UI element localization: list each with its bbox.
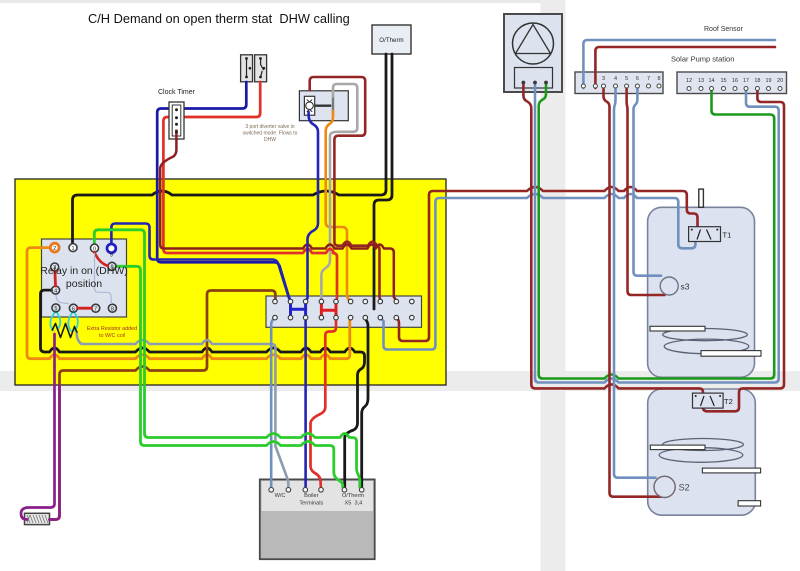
wire slate-blue T1 to strip col8 bottom — [381, 194, 696, 350]
wire black bus relay-4 to boiler terminal — [41, 290, 365, 487]
upper coil ellipse 1 — [663, 329, 748, 341]
wire dark-red solar-3 to sensor S2 — [604, 88, 664, 497]
pump terminal box — [515, 68, 553, 89]
wire slate-gray resistor to boiler W/C-2 — [77, 332, 289, 487]
wire red switch-2 to strip col5 top — [163, 82, 337, 301]
boiler terminal area — [262, 481, 374, 511]
svg-text:7: 7 — [94, 306, 97, 312]
wire red strip col5 to boiler terminal — [311, 318, 337, 487]
cylinder upper section — [648, 207, 755, 377]
thermostat T2 box — [693, 393, 724, 408]
svg-text:4: 4 — [54, 288, 57, 294]
valve actuator arm — [315, 104, 332, 106]
svg-text:C/H Demand on open therm stat: C/H Demand on open therm stat DHW callin… — [88, 11, 350, 26]
wire dark-red solar-5 to sensor s3 — [627, 88, 665, 295]
pump circle — [513, 23, 554, 64]
wire dark-red roof sensor — [595, 47, 775, 88]
svg-text:W/C: W/C — [275, 493, 286, 499]
svg-text:16: 16 — [732, 78, 738, 84]
relay pin 3 — [51, 263, 59, 271]
relay pin 9 (blue) — [107, 244, 116, 259]
boiler box — [260, 479, 375, 559]
wire green pump to solar station 14 — [539, 84, 775, 379]
svg-text:9: 9 — [110, 253, 113, 259]
svg-text:switched mode Flows to: switched mode Flows to — [243, 131, 298, 137]
diverter valve box — [299, 91, 348, 121]
svg-text:12: 12 — [686, 78, 692, 84]
upper coil pipe right — [701, 351, 761, 357]
strip terminals top row — [273, 299, 414, 304]
svg-text:4: 4 — [614, 76, 617, 82]
wire dark-red diverter valve to strip col8 top — [310, 77, 381, 301]
svg-text:7: 7 — [647, 76, 650, 82]
clock timer contact dots — [175, 108, 178, 133]
wire navy strip col3 to boiler terminal — [304, 318, 307, 487]
relay pin 10 — [91, 244, 99, 252]
wire cyan resistor lead — [50, 311, 56, 331]
relay pin 6 — [69, 304, 77, 312]
svg-text:19: 19 — [765, 78, 771, 84]
svg-text:DHW: DHW — [264, 137, 276, 143]
svg-text:O/Therm: O/Therm — [379, 37, 403, 44]
solar strip A terminals — [581, 84, 661, 88]
solar terminal strip A — [575, 72, 663, 94]
wire orange diverter valve to strip col6 top — [326, 111, 351, 301]
svg-text:20: 20 — [777, 78, 783, 84]
wire dark-red pump to solar station 18 via T2 — [523, 84, 784, 411]
clock timer inner — [172, 105, 181, 136]
valve gate bar — [332, 96, 334, 114]
pump terminal dots — [522, 81, 548, 85]
relay internal red link 3-4 — [54, 271, 57, 286]
solar pump station strip B — [677, 72, 787, 94]
wire purple to link plug — [21, 334, 55, 520]
wire dark-red clock timer stub — [175, 130, 178, 141]
relay internal coil wire 4-6 — [56, 295, 69, 304]
wire black O/Therm-2 to terminal strip — [374, 54, 392, 309]
svg-text:3 port diverter valve in: 3 port diverter valve in — [245, 124, 294, 130]
svg-text:2: 2 — [53, 246, 56, 252]
link red strip col4-col5 — [321, 302, 336, 318]
relay pin 4 — [52, 286, 60, 294]
wire green relay-8 to boiler O/Therm-1 — [116, 266, 343, 487]
valve rotor circle — [306, 102, 314, 110]
svg-text:3: 3 — [602, 76, 605, 82]
relay internal red link 10-8 — [95, 253, 108, 267]
svg-text:5: 5 — [625, 76, 628, 82]
link plug (hatched) — [25, 513, 50, 524]
terminal strip in yellow box — [266, 296, 422, 327]
svg-text:15: 15 — [720, 78, 726, 84]
svg-text:Boiler: Boiler — [304, 493, 318, 499]
lower coil pipe right — [702, 468, 760, 473]
link plug hatch — [27, 515, 48, 523]
upper coil ellipse 2 — [664, 339, 749, 354]
svg-text:position: position — [66, 278, 102, 290]
svg-text:1: 1 — [71, 246, 74, 252]
lower coil pipe left — [650, 445, 705, 450]
valve rotor spokes — [307, 100, 312, 112]
solar strip B terminals — [687, 87, 782, 91]
switch 1 contact line — [246, 60, 248, 77]
wire dark-red strip col9 to thermostat T1 — [396, 187, 697, 341]
wire gray diverter valve loop to strip col4 top — [321, 84, 357, 299]
thermostat T1 box — [689, 227, 721, 242]
wire green relay to boiler O/Therm-2 — [94, 230, 360, 487]
gray band horizontal — [0, 371, 800, 391]
switch box 1 — [241, 55, 253, 82]
relay internal red link 6-7 — [78, 307, 92, 310]
resistor zig-zag — [52, 324, 77, 338]
switch contact dots — [245, 57, 265, 78]
switch box 2 — [255, 55, 267, 82]
relay internal coil wire 10-12 — [95, 253, 112, 304]
wire blue switch-1 via clock timer to strip col2 top — [157, 82, 290, 301]
link blue strip col2-col3 — [291, 302, 306, 318]
svg-text:s3: s3 — [681, 282, 690, 292]
wire blue roof sensor — [583, 40, 775, 88]
svg-text:Solar Pump station: Solar Pump station — [671, 55, 734, 64]
sensor s3 — [660, 277, 678, 295]
relay pin 5 — [52, 304, 60, 312]
wire blue solar-4 to sensor S2 — [614, 88, 656, 478]
svg-text:O/Therm: O/Therm — [342, 493, 364, 499]
sensor S2 — [654, 476, 675, 497]
lower coil ellipse 1 — [663, 439, 744, 451]
yellow wiring centre box — [15, 179, 446, 385]
wire cyan resistor lead — [68, 311, 73, 331]
svg-text:6: 6 — [72, 306, 75, 312]
pump box — [504, 14, 562, 92]
lower coil ellipse 2 — [659, 448, 743, 463]
upper coil pipe left — [650, 326, 705, 331]
strip terminals bottom row — [273, 315, 414, 320]
svg-text:Clock Timer: Clock Timer — [158, 89, 196, 96]
svg-text:X5 3,4: X5 3,4 — [345, 501, 363, 507]
gray band top — [0, 0, 565, 3]
immersion pin — [699, 189, 704, 207]
switch 2 lever — [261, 58, 264, 77]
relay pin 7 — [92, 304, 100, 312]
wire black O/Therm-1 to relay pin 1 — [73, 54, 387, 243]
svg-text:to W/C coil: to W/C coil — [99, 333, 125, 339]
svg-text:Terminals: Terminals — [299, 501, 323, 507]
O/Therm box — [372, 25, 411, 54]
wire dark-red clock timer to strip col9 top — [160, 133, 396, 301]
solar strip B numbers — [686, 78, 783, 84]
relay box — [42, 239, 127, 317]
relay pin 8 — [108, 262, 116, 270]
wire cyan resistor lead — [56, 311, 60, 330]
svg-text:18: 18 — [754, 78, 760, 84]
relay pin 12 — [108, 304, 116, 312]
svg-text:Extra Resistor added: Extra Resistor added — [87, 326, 137, 332]
pump triangle — [516, 25, 551, 54]
wire slate strip col1 to boiler W/C-1 — [271, 318, 275, 487]
cylinder lower section — [648, 389, 756, 515]
solar strip A numbers — [602, 76, 661, 82]
clock timer outer — [169, 102, 184, 139]
wire cyan resistor lead — [73, 311, 77, 331]
svg-text:Relay in on (DHW): Relay in on (DHW) — [40, 265, 128, 277]
wire black strip to boiler O/Therm-2 — [362, 319, 368, 487]
svg-text:8: 8 — [657, 76, 660, 82]
lower pipe stub — [738, 501, 761, 506]
svg-text:17: 17 — [743, 78, 749, 84]
svg-text:8: 8 — [111, 306, 114, 312]
boiler terminals — [269, 488, 364, 493]
svg-text:13: 13 — [698, 78, 704, 84]
svg-text:14: 14 — [708, 78, 714, 84]
wire brown link-plug to strip col1 top — [50, 291, 276, 520]
relay pin 2 (orange) — [50, 243, 59, 252]
svg-text:5: 5 — [54, 306, 57, 312]
svg-text:S2: S2 — [679, 483, 690, 493]
svg-text:T2: T2 — [724, 397, 733, 406]
svg-text:T1: T1 — [723, 231, 732, 240]
wire blue solar-6 to sensor s3 — [634, 88, 662, 276]
wire orange relay-2 to strip col6 — [27, 248, 350, 359]
boiler labels — [275, 493, 365, 507]
svg-text:Roof Sensor: Roof Sensor — [704, 26, 744, 33]
wire navy diverter valve to strip col3 top — [306, 112, 318, 301]
relay pin 1 — [69, 244, 77, 252]
svg-text:6: 6 — [636, 76, 639, 82]
diverter valve body — [304, 96, 314, 115]
gray band vertical — [541, 0, 566, 571]
wire purple link plug right leg — [50, 385, 60, 520]
wire blue pump to solar station 17 — [535, 84, 779, 383]
wire navy relay-9 to strip col2 top — [111, 224, 290, 302]
